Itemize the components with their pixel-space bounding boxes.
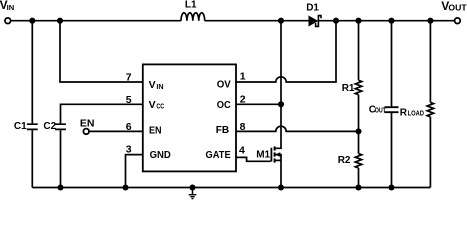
- svg-text:8: 8: [240, 121, 246, 133]
- svg-text:5: 5: [126, 94, 132, 106]
- svg-text:OV: OV: [217, 79, 231, 91]
- svg-text:R2: R2: [338, 155, 351, 166]
- svg-text:4: 4: [239, 144, 245, 156]
- svg-text:OUT: OUT: [375, 108, 387, 115]
- svg-text:LOAD: LOAD: [408, 111, 424, 118]
- svg-text:7: 7: [126, 72, 132, 84]
- svg-text:EN: EN: [149, 125, 162, 137]
- svg-text:2: 2: [240, 94, 246, 106]
- svg-text:1: 1: [240, 71, 246, 83]
- svg-text:GATE: GATE: [206, 149, 231, 161]
- svg-text:VOUT: VOUT: [441, 0, 467, 13]
- svg-text:R: R: [400, 108, 408, 119]
- svg-text:EN: EN: [80, 118, 95, 130]
- svg-text:D1: D1: [306, 3, 319, 14]
- svg-text:GND: GND: [150, 149, 172, 161]
- svg-text:FB: FB: [216, 124, 230, 136]
- svg-text:C2: C2: [43, 121, 56, 132]
- svg-text:6: 6: [126, 121, 132, 133]
- svg-text:C1: C1: [14, 121, 27, 132]
- svg-text:OC: OC: [217, 99, 231, 111]
- svg-text:M1: M1: [256, 150, 270, 161]
- svg-text:3: 3: [126, 143, 132, 155]
- svg-text:R1: R1: [342, 83, 355, 94]
- svg-text:L1: L1: [185, 0, 197, 11]
